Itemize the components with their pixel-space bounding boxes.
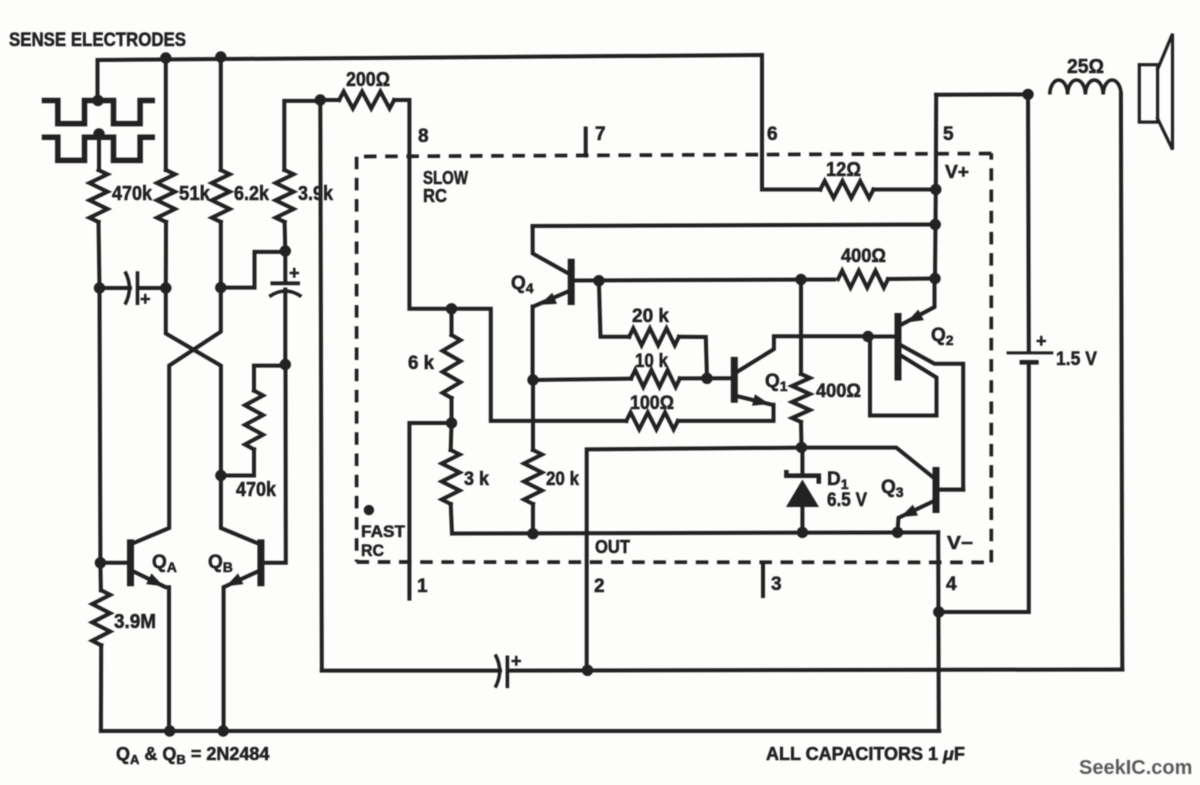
svg-text:6.2k: 6.2k [234,183,270,205]
svg-text:4: 4 [946,574,957,595]
svg-text:200Ω: 200Ω [346,69,390,91]
battery minus plate [1020,360,1039,365]
speaker cone [1158,34,1173,150]
node Q2 emitter top [929,273,940,284]
wire QA emitter [133,571,169,731]
capacitor C1 straight plate [136,271,140,305]
resistor 12ohm body [820,181,873,198]
node comb upper [92,95,103,106]
arrow Q2 emitter [907,310,924,323]
transistor QB bar [257,539,264,586]
svg-text:20 k: 20 k [632,306,669,327]
wire 100ohm right lead [678,405,774,421]
svg-text:400Ω: 400Ω [816,381,861,402]
wire 200ohm left lead [320,98,339,102]
wire C1 left [100,286,131,290]
svg-text:5: 5 [943,124,954,145]
node D1 top [796,442,807,453]
wire 6k top lead [450,309,454,335]
resistor 470k2 body [245,391,263,450]
wire C2 bottom lead [283,290,287,365]
svg-text:8: 8 [418,126,429,147]
speaker frame [1139,65,1157,122]
transistor Q4 bar [568,259,575,305]
wire D1 bottom lead [800,507,804,532]
diode D1 zener bar [786,470,818,484]
wire 10k left lead [533,379,631,380]
arrow Q3 emitter [901,505,919,517]
wire out cap rail right [508,670,1122,671]
capacitor C2 straight plate [271,281,300,285]
svg-text:+: + [289,263,300,283]
wire C2 link [221,252,285,288]
wire 6.2k bottom lead [219,222,223,288]
svg-text:SeekIC.com: SeekIC.com [1079,757,1192,779]
node C1 left [94,282,105,293]
wire battery bottom lead [939,364,1029,612]
svg-text:470k: 470k [112,183,153,205]
capacitor C3 straight plate [506,656,510,689]
wire Q3 base lead [939,488,963,492]
node 6.2k top [215,51,226,62]
node 20kh-10k junction [701,373,712,384]
wire Q2 emitter [902,279,935,325]
arrow Q4 emitter [540,293,558,305]
svg-text:1: 1 [417,576,428,597]
capacitor C3 curved plate [495,655,500,688]
battery plus plate [1007,351,1054,354]
node QA emitter bottom [164,725,175,736]
node QB emitter bottom [218,725,229,736]
wire OUT rail [452,532,938,533]
svg-text:12Ω: 12Ω [826,159,861,181]
svg-text:20 k: 20 k [546,469,579,490]
svg-text:+: + [511,651,522,671]
wire bottom rail [101,729,939,733]
node 51k top [160,52,171,63]
resistor 6.2k body [212,170,230,222]
resistor 200ohm body [339,92,394,109]
resistor 20kv body [524,450,542,504]
svg-text:3 k: 3 k [464,469,489,490]
capacitor C1 curved plate [125,272,129,305]
inductor 25ohm coil [1050,80,1121,95]
svg-text:QA & QB = 2N2484: QA & QB = 2N2484 [116,744,269,767]
wire 470k2 bottom lead [221,449,254,475]
wire 400v top lead [799,280,803,375]
node FAST RC [364,505,374,515]
transistor Q3 bar [933,467,940,513]
wire 6.2k top lead [219,57,223,170]
svg-text:FAST: FAST [361,522,406,541]
wire battery top lead [1026,94,1031,351]
transistor Q2 bar [895,313,902,381]
svg-text:ALL CAPACITORS 1 μF: ALL CAPACITORS 1 μF [766,744,965,764]
svg-text:10 k: 10 k [635,351,668,372]
resistor 400h body [838,271,888,288]
wire 20kh right lead [679,337,707,379]
pin 3 tick [761,565,765,596]
wire 3k top lead [449,423,454,450]
svg-text:OUT: OUT [595,537,630,557]
arrow QA emitter [146,573,163,586]
pin 7 tick [584,129,588,156]
node 10k left [527,374,538,385]
node 6k bottom [446,417,457,428]
svg-text:V+: V+ [945,162,969,182]
wire Q3 emitter [898,501,935,532]
svg-text:+: + [140,289,151,309]
node C2 bottom [280,359,291,370]
svg-text:400Ω: 400Ω [841,246,886,267]
wire Q4 collector rail [533,225,936,227]
wire 12ohm right lead [874,188,936,192]
wire 400h right lead [888,277,935,282]
wire 470k2 top lead [254,366,285,391]
wire 3.9M bottom lead [99,645,103,731]
wire Q2 base lead [868,335,896,339]
node comb lower [93,128,104,139]
wire 20kv top lead [531,380,535,450]
wire top rail [98,55,763,60]
wire 3.9k bottom lead [283,222,288,251]
wire 51k top lead [164,58,168,170]
node 6k top [446,303,457,314]
arrow QB emitter [226,573,243,586]
wire out cap rail left [322,669,500,673]
wire cross 51k-to-QB [166,288,258,543]
svg-text:6 k: 6 k [408,353,434,374]
wire Q1 collector [737,336,868,372]
node 12ohm right [930,184,941,195]
svg-text:2: 2 [594,576,605,597]
node Q2 base tap [862,331,873,342]
transistor Q1 bar [731,357,738,403]
wire QB emitter [224,571,259,731]
resistor 10kh body [631,370,680,387]
svg-text:SENSE ELECTRODES: SENSE ELECTRODES [9,30,186,51]
node C1 right [160,282,171,293]
wire 51k bottom lead [164,222,168,288]
resistor 470k body [90,170,108,222]
node 20kv bottom [527,528,538,539]
svg-text:470k: 470k [236,479,277,501]
arrow Q1 emitter [752,394,770,406]
wire Q4 base rail [573,280,834,281]
resistor 3.9M body [92,590,110,645]
wire QA base lead [100,561,128,565]
resistor 3k body [442,450,460,504]
svg-text:6.5 V: 6.5 V [827,490,867,511]
wire electrode drop [96,60,100,101]
resistor 6k body [443,335,461,398]
wire pin2 stub [587,448,934,671]
wire 10k right lead [680,376,733,380]
wire C1 right [138,286,166,290]
svg-text:7: 7 [595,124,606,145]
wire Q1 emitter [736,396,770,404]
svg-text:3.9k: 3.9k [298,183,334,205]
node coil left [1022,89,1033,100]
wire 20kv bottom lead [531,504,535,534]
svg-text:RC: RC [361,541,384,560]
svg-text:SLOW: SLOW [423,168,468,188]
diode D1 triangle [786,480,819,508]
wire 200ohm right lead [394,100,451,309]
node Vplus mid [930,219,941,230]
wire 3.9k top lead [284,101,320,170]
wire 3k bottom lead [451,504,452,534]
wire Q4 collector [533,226,569,274]
svg-text:25Ω: 25Ω [1067,56,1104,78]
wire D1 top lead [800,447,804,472]
wire C2 top lead [283,251,287,283]
svg-text:V−: V− [947,533,973,553]
node C3 pin2 [582,665,593,676]
capacitor C2 curved plate [269,291,301,297]
wire Q2 collector1 [901,345,964,490]
resistor 400v body [792,374,810,422]
electrode comb upper [45,101,153,124]
wire Q2 collector2 loop [870,338,937,416]
wire 6k feed [452,309,627,421]
wire pin1 branch [409,423,451,599]
node 470k2 bottom [215,470,226,481]
svg-text:6: 6 [767,124,778,145]
svg-text:100Ω: 100Ω [630,393,674,414]
svg-text:3: 3 [771,574,782,595]
wire coil right drop [1121,95,1122,670]
wire 400v bottom lead [799,422,804,447]
node D1 bottom [797,527,808,538]
svg-text:3.9M: 3.9M [114,611,156,633]
wire top right link [936,92,1028,96]
resistor 100ohm body [626,412,678,429]
wire pin6 drop [762,55,820,190]
resistor 3.9k body [276,170,294,222]
svg-text:RC: RC [423,186,447,206]
svg-text:51k: 51k [179,183,211,205]
wire left outer rail [320,100,322,670]
wire left rail upper [100,288,101,590]
svg-text:+: + [1036,331,1047,351]
node pin4 battery junction [933,606,944,617]
resistor 51k body [157,170,175,222]
wire 470k bottom lead [99,222,100,288]
wire 6k bottom lead [450,398,454,423]
electrode comb lower [45,137,153,160]
wire comb link [97,134,101,170]
node Q4 base 20k tap [593,275,604,286]
resistor 20kh body [629,328,679,345]
svg-text:1.5 V: 1.5 V [1056,349,1097,370]
node QA base [95,557,106,568]
node 6.2k col [215,282,226,293]
wire cross 6.2k-to-QA [133,288,221,544]
node Q3 emitter [892,527,903,538]
node 400v top [795,274,806,285]
dashed box outline [357,153,992,562]
node 3.9k-C2 top [280,245,291,256]
wire pin4 drop [936,532,941,731]
wire Q4 emitter [533,292,568,381]
wire 20kh left lead [599,281,629,337]
node 200ohm left [315,94,326,105]
transistor QA bar [127,539,134,586]
wire pin5 rail [935,95,936,279]
wire QB base column [264,365,286,563]
